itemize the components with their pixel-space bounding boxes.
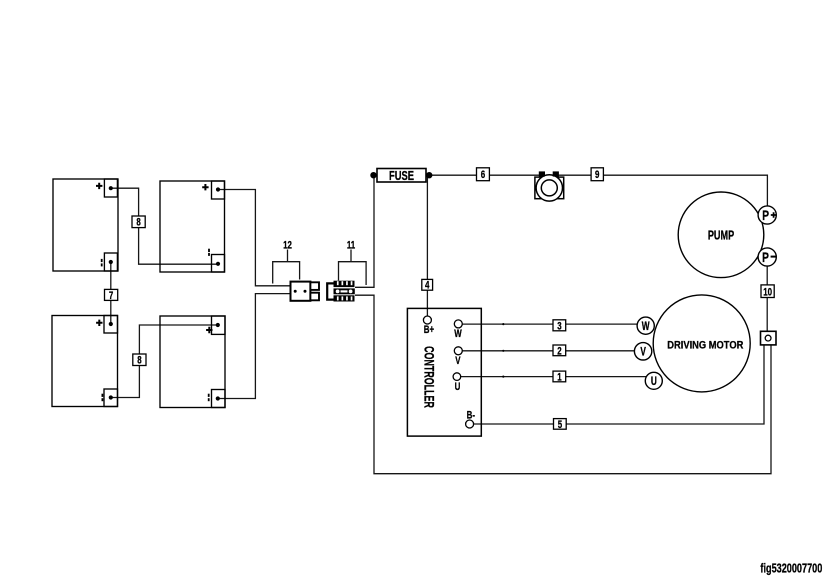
terminal P- [758, 248, 776, 266]
driving motor M1 [653, 295, 750, 392]
motor terminal U [645, 372, 662, 389]
svg-text:P: P [762, 249, 769, 265]
item 4 box [422, 279, 433, 292]
item 2 box [553, 345, 566, 358]
item 1 box [553, 371, 566, 384]
svg-text:3: 3 [557, 320, 561, 333]
svg-text:PUMP: PUMP [708, 229, 735, 243]
svg-text:P: P [762, 207, 769, 223]
wire: top bus fuse to pump P+ [429, 174, 545, 176]
horn / buzzer [535, 171, 564, 201]
splice tick on V wire [502, 350, 504, 352]
battery 3 bottom-left [52, 316, 118, 407]
wire: controller W via item 3 to motor W [462, 323, 638, 325]
label 12 with bracket [273, 239, 300, 283]
junction dot fuse left [370, 172, 376, 178]
wire: battery1 + via item 8 to battery2 - [111, 188, 218, 264]
pump M2 [678, 192, 764, 278]
item 8 box first [132, 216, 145, 229]
splice tick on W wire [502, 323, 504, 325]
item 7 box [105, 289, 118, 302]
item 6 box [477, 168, 490, 182]
svg-text:B+: B+ [424, 324, 435, 337]
wire: controller U via item 1 to motor U [461, 376, 648, 378]
svg-text:1: 1 [557, 371, 562, 384]
controller terminal U [453, 373, 461, 394]
item 3 box [553, 320, 566, 333]
svg-text:4: 4 [425, 280, 430, 293]
wire: fuse via item 4 to controller B+ [426, 175, 428, 316]
svg-text:fig5320007700: fig5320007700 [760, 562, 822, 576]
wire: controller B- via item 5 to junction terminal [474, 345, 764, 424]
item 9 box [591, 168, 603, 182]
wire: controller V via item 2 to motor V [462, 350, 635, 352]
wire: connector 11 to fuse positive feed [355, 175, 377, 287]
connector 12 plug [291, 282, 320, 301]
motor terminal V [634, 343, 651, 360]
controller terminal B+ [423, 316, 434, 336]
motor terminal W [637, 317, 654, 334]
svg-text:8: 8 [136, 217, 141, 230]
svg-text:U: U [651, 376, 657, 389]
item 5 box [554, 419, 567, 432]
svg-text:U: U [455, 381, 461, 394]
svg-text:CONTROLLER: CONTROLLER [421, 346, 435, 408]
splice tick on U wire [502, 376, 504, 378]
controller terminal V [454, 347, 462, 368]
svg-text:V: V [640, 346, 646, 359]
junction dot fuse right [426, 172, 432, 178]
label 11 with bracket [339, 239, 367, 285]
junction terminal block [761, 331, 777, 345]
wire: battery4 - to connector 12 [218, 294, 291, 399]
svg-text:V: V [455, 355, 461, 368]
battery 4 bottom-middle [160, 316, 225, 408]
svg-text:5: 5 [558, 419, 563, 432]
controller terminal W [454, 320, 462, 341]
svg-text:7: 7 [109, 290, 113, 303]
wire: battery3 - via item 8 to battery4 + [111, 325, 218, 398]
svg-text:10: 10 [763, 286, 772, 299]
svg-text:9: 9 [595, 169, 599, 182]
fuse F1 [377, 169, 426, 184]
svg-text:2: 2 [557, 345, 561, 358]
connector 11 plug [327, 281, 355, 302]
terminal P+ [758, 206, 776, 224]
svg-text:W: W [454, 328, 462, 341]
svg-text:W: W [642, 321, 650, 334]
wire: battery1 - via item 7 to battery3 + [110, 262, 112, 324]
svg-text:6: 6 [481, 169, 485, 182]
wire: pump P- via item 10 to junction terminal [766, 266, 768, 331]
wire: battery2 + to connector 12 [218, 190, 291, 286]
controller U1 [407, 308, 481, 436]
svg-text:DRIVING MOTOR: DRIVING MOTOR [667, 340, 744, 352]
svg-text:FUSE: FUSE [389, 170, 414, 184]
battery 1 top-left [53, 179, 118, 271]
item 8 box second [133, 354, 146, 367]
battery 2 top-middle [160, 181, 225, 272]
controller terminal B- [466, 409, 475, 428]
svg-text:8: 8 [137, 354, 142, 367]
wire: B- return connector 11 to junction terminal via bottom [355, 295, 771, 474]
item 10 box [761, 285, 774, 299]
